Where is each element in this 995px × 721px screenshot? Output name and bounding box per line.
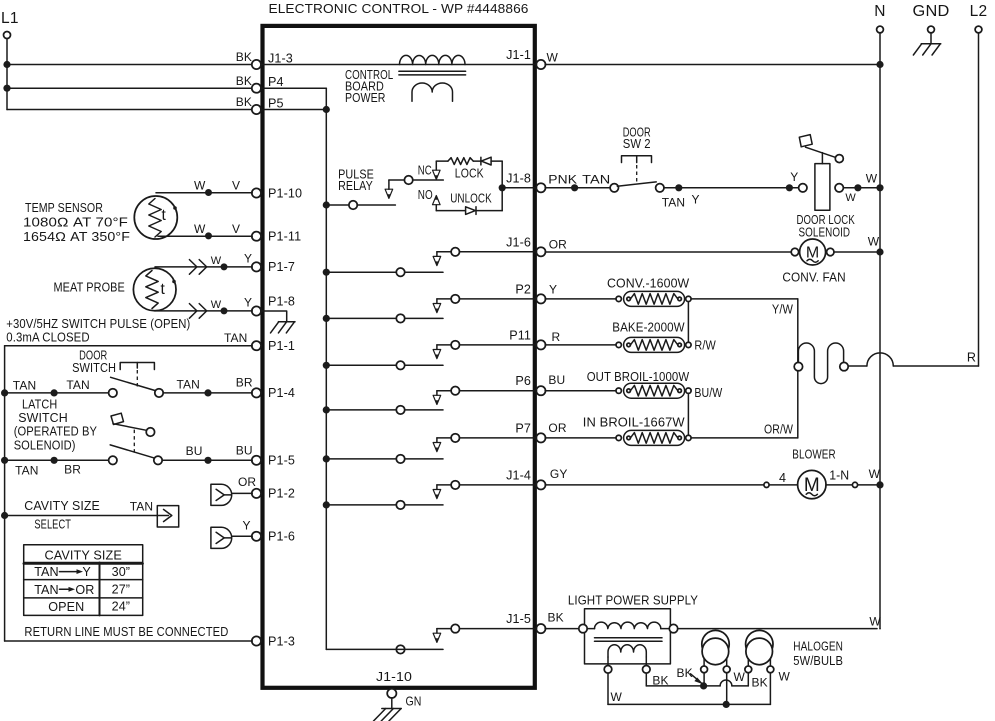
pin P1-5 terminal bbox=[252, 454, 295, 468]
motor M2 blower bbox=[764, 470, 858, 498]
label W bbox=[866, 172, 878, 186]
pin P2 terminal bbox=[515, 282, 545, 303]
label BK bbox=[548, 611, 564, 625]
label 0.3mA CLOSED bbox=[6, 330, 89, 344]
svg-text:BU: BU bbox=[236, 444, 253, 458]
table row OPEN 24 bbox=[48, 600, 130, 614]
wire bulb2 right lead bbox=[769, 673, 771, 705]
node PNK-TAN junction bbox=[571, 184, 578, 191]
svg-text:1080Ω AT 70°F: 1080Ω AT 70°F bbox=[23, 216, 128, 230]
label LATCH SWITCH (OPERATED BY SOLENOID) bbox=[14, 397, 98, 452]
svg-text:LIGHT POWER SUPPLY: LIGHT POWER SUPPLY bbox=[568, 594, 699, 608]
label Y bbox=[692, 193, 700, 207]
svg-text:P11: P11 bbox=[509, 328, 531, 342]
wire P5 to bus bbox=[261, 109, 327, 111]
svg-text:P1-10: P1-10 bbox=[268, 186, 302, 200]
svg-text:SOLENOID: SOLENOID bbox=[799, 225, 851, 239]
wire relay common P2 bbox=[326, 317, 443, 319]
svg-text:(OPERATED BY: (OPERATED BY bbox=[14, 425, 98, 439]
wire P7 to in broil element bbox=[545, 437, 616, 439]
latch switch link bbox=[133, 430, 135, 455]
terminal N bbox=[874, 3, 885, 33]
wire NC stub bbox=[389, 180, 405, 189]
svg-text:POWER: POWER bbox=[345, 91, 386, 105]
label BK arrow bbox=[677, 666, 704, 685]
relay common contact P6 bbox=[396, 406, 404, 414]
svg-text:L2: L2 bbox=[970, 3, 988, 20]
svg-text:OR: OR bbox=[548, 421, 566, 435]
svg-text:OUT BROIL-1000W: OUT BROIL-1000W bbox=[587, 370, 690, 384]
svg-text:SWITCH: SWITCH bbox=[72, 361, 116, 375]
svg-text:TAN: TAN bbox=[662, 195, 685, 209]
label R bbox=[967, 351, 976, 365]
wire J1-5 to light supply bbox=[545, 628, 579, 630]
solenoid SOL1 door lock bbox=[799, 164, 844, 211]
svg-text:W: W bbox=[734, 670, 746, 684]
wire after door sw 2 bbox=[664, 187, 799, 189]
svg-text:TAN: TAN bbox=[130, 500, 153, 514]
wire P2 to conv element bbox=[545, 298, 616, 300]
label Y bbox=[244, 296, 252, 310]
svg-text:27”: 27” bbox=[112, 583, 131, 597]
label BU bbox=[236, 444, 253, 458]
svg-text:24”: 24” bbox=[112, 600, 131, 614]
svg-text:P1-11: P1-11 bbox=[268, 230, 301, 244]
wire J1-8 PNK bbox=[545, 187, 610, 189]
svg-text:Y: Y bbox=[692, 193, 700, 207]
connector P1-6 plug bbox=[211, 527, 252, 548]
svg-text:W: W bbox=[194, 222, 206, 236]
node W-V junction bbox=[205, 232, 212, 239]
svg-text:W: W bbox=[869, 467, 881, 481]
pin J1-1 terminal bbox=[506, 48, 545, 69]
svg-text:R/W: R/W bbox=[694, 338, 715, 352]
pin P1-7 terminal bbox=[252, 260, 295, 274]
svg-text:TAN: TAN bbox=[34, 565, 59, 579]
electronic control board U1 (box) bbox=[263, 26, 535, 688]
label BR bbox=[64, 462, 81, 476]
connector arrow down bbox=[385, 189, 393, 198]
connector arrow P7 bbox=[433, 443, 441, 452]
svg-text:BK: BK bbox=[236, 74, 252, 88]
wire latch switch to P1-5 bbox=[162, 459, 252, 461]
node left bus cavity junction bbox=[1, 512, 8, 519]
wire inner bus vertical bbox=[325, 88, 327, 649]
svg-text:BU: BU bbox=[186, 444, 203, 458]
label R bbox=[552, 330, 561, 344]
node W junction bbox=[723, 701, 730, 708]
node junction bbox=[204, 457, 211, 464]
label TAN bbox=[66, 378, 89, 392]
wire J1-3 to J1-1 bbox=[261, 64, 537, 66]
relay contact output P7 bbox=[437, 434, 537, 443]
label IN BROIL-1667W bbox=[583, 416, 685, 430]
svg-text:P1-5: P1-5 bbox=[268, 454, 295, 468]
svg-text:P2: P2 bbox=[515, 282, 531, 296]
connector cavity select box bbox=[157, 506, 178, 527]
pin P6 terminal bbox=[515, 374, 545, 395]
wire temp sensor to P1-11 bbox=[158, 235, 252, 237]
svg-text:L1: L1 bbox=[1, 10, 19, 27]
pin P4 terminal bbox=[252, 75, 284, 93]
node bus junction P11 bbox=[323, 362, 330, 369]
label BK bbox=[652, 673, 668, 687]
ground GND symbol bbox=[913, 33, 940, 55]
label ELECTRONIC CONTROL - WP #4448866 bbox=[269, 1, 529, 16]
wire L1 vertical bbox=[6, 39, 8, 110]
connector chevrons bbox=[189, 260, 206, 275]
svg-text:GND: GND bbox=[913, 3, 950, 20]
transformer T1 control board power primary bbox=[400, 55, 466, 64]
node L1-P4 junction bbox=[3, 85, 10, 92]
wire pulse relay common bbox=[326, 204, 395, 206]
svg-text:NO: NO bbox=[418, 188, 433, 202]
terminal L1 bbox=[1, 10, 19, 39]
wire meat probe to P1-7 bbox=[155, 266, 252, 268]
svg-text:P1-7: P1-7 bbox=[268, 260, 295, 274]
svg-text:W: W bbox=[869, 614, 881, 628]
label W bbox=[734, 670, 746, 684]
svg-text:1-N: 1-N bbox=[829, 468, 849, 482]
svg-text:SW 2: SW 2 bbox=[623, 137, 651, 151]
wire lock branch top bbox=[436, 160, 502, 162]
motor M1 conv fan bbox=[791, 239, 834, 265]
svg-text:BAKE-2000W: BAKE-2000W bbox=[612, 320, 684, 334]
relay common contact P11 bbox=[396, 361, 404, 369]
svg-text:SWITCH: SWITCH bbox=[18, 411, 68, 425]
relay common contact P7 bbox=[396, 455, 404, 463]
label CONTROL BOARD POWER bbox=[345, 68, 393, 105]
label OUT BROIL-1000W bbox=[587, 370, 690, 384]
table column line bbox=[99, 563, 101, 616]
label 4 bbox=[779, 471, 786, 485]
label CONV. FAN bbox=[782, 270, 845, 284]
label CONV.-1600W bbox=[607, 276, 689, 290]
svg-text:P1-6: P1-6 bbox=[268, 530, 295, 544]
label HALOGEN 5W/BULB bbox=[793, 639, 843, 668]
svg-text:TAN: TAN bbox=[13, 379, 36, 393]
svg-text:GN: GN bbox=[406, 695, 422, 709]
relay K1 common contact bbox=[349, 201, 357, 209]
svg-text:Y/W: Y/W bbox=[772, 303, 793, 317]
heating element BAKE 2000W bbox=[616, 337, 691, 352]
label W bbox=[211, 299, 222, 311]
svg-text:W: W bbox=[866, 172, 878, 186]
svg-text:0.3mA CLOSED: 0.3mA CLOSED bbox=[6, 330, 89, 344]
wire cavity select bbox=[5, 515, 158, 517]
wire TAN to P1-1 bbox=[5, 345, 253, 347]
flexible conduit link bbox=[798, 343, 843, 384]
svg-text:W: W bbox=[868, 235, 880, 249]
table row TAN-OR 27 bbox=[34, 583, 130, 597]
label OR bbox=[548, 421, 566, 435]
pin P1-2 terminal bbox=[252, 487, 295, 501]
label W at J1-1 bbox=[547, 51, 559, 65]
relay contact output J1-4 bbox=[437, 481, 537, 490]
terminal GND bbox=[913, 3, 950, 33]
label TAN bbox=[662, 195, 685, 209]
connector arrow J1-4 bbox=[433, 490, 441, 499]
node junction bbox=[221, 307, 228, 314]
transformer T2 core bbox=[595, 638, 663, 642]
transformer T2 primary left terminal bbox=[579, 624, 587, 632]
label OR bbox=[238, 475, 256, 489]
node bus-P5 junction bbox=[323, 106, 330, 113]
node junction bbox=[204, 389, 211, 396]
svg-text:BK: BK bbox=[752, 675, 768, 689]
svg-text:TAN: TAN bbox=[15, 464, 38, 478]
wire R to L2 bbox=[848, 353, 978, 366]
svg-text:P4: P4 bbox=[268, 75, 284, 89]
label W bbox=[869, 614, 881, 628]
node TAN junction bbox=[51, 457, 58, 464]
label W bbox=[194, 179, 206, 193]
svg-text:MEAT PROBE: MEAT PROBE bbox=[54, 281, 125, 295]
pin P7 terminal bbox=[515, 421, 545, 442]
label TAN bbox=[224, 331, 247, 345]
svg-text:P5: P5 bbox=[268, 96, 284, 110]
node Y junction at solenoid bbox=[786, 184, 793, 191]
node bus junction J1-4 bbox=[323, 501, 330, 508]
svg-text:Y: Y bbox=[549, 282, 557, 296]
table row lines bbox=[24, 580, 143, 598]
svg-text:W: W bbox=[211, 255, 222, 267]
label W bbox=[869, 467, 881, 481]
transformer T2 secondary terminals bbox=[604, 666, 650, 674]
wire L2 vertical bbox=[978, 33, 980, 366]
svg-text:4: 4 bbox=[779, 471, 786, 485]
wire BK to P5 bbox=[7, 109, 252, 111]
label BAKE-2000W bbox=[612, 320, 684, 334]
svg-text:Y: Y bbox=[790, 170, 798, 184]
wire fan to N bbox=[834, 251, 877, 253]
switch S2 door sw 2 bbox=[610, 182, 664, 192]
label BLOWER bbox=[792, 448, 835, 462]
label LOCK bbox=[455, 167, 484, 181]
node N-J11 junction bbox=[876, 61, 883, 68]
label GY bbox=[550, 467, 568, 481]
label BK bbox=[236, 95, 252, 109]
svg-text:J1-8: J1-8 bbox=[506, 171, 531, 185]
svg-text:BK: BK bbox=[236, 95, 252, 109]
ground J1-10 GN bbox=[374, 695, 422, 721]
label W bbox=[779, 669, 791, 683]
node flexible link left bbox=[794, 362, 802, 370]
connector arrow P2 bbox=[433, 304, 441, 313]
svg-text:LOCK: LOCK bbox=[455, 167, 484, 181]
svg-text:CONV. FAN: CONV. FAN bbox=[782, 270, 845, 284]
label RETURN LINE MUST BE CONNECTED bbox=[24, 625, 228, 639]
label MEAT PROBE bbox=[54, 281, 125, 295]
connector arrow P6 bbox=[433, 395, 441, 404]
svg-text:R: R bbox=[967, 351, 976, 365]
wire heater return vertical bbox=[797, 299, 799, 438]
relay contact output J1-5 bbox=[437, 624, 537, 633]
relay contact output P11 bbox=[437, 341, 537, 350]
wire blower to N bbox=[858, 484, 877, 486]
table row TAN-Y 30 bbox=[34, 565, 130, 579]
wire to door switch bbox=[5, 392, 109, 394]
wire N bus vertical bbox=[879, 33, 881, 629]
svg-text:M: M bbox=[804, 475, 820, 496]
pin P1-6 terminal bbox=[252, 530, 295, 544]
svg-text:OR: OR bbox=[75, 583, 94, 597]
label TAN bbox=[13, 379, 36, 393]
wire relay common P6 bbox=[326, 409, 443, 411]
label 1-N bbox=[829, 468, 849, 482]
relay contact output P2 bbox=[437, 295, 537, 304]
switch S3 latch switch bbox=[109, 445, 163, 465]
svg-text:TAN: TAN bbox=[224, 331, 247, 345]
svg-text:P1-2: P1-2 bbox=[268, 487, 295, 501]
wire relay common P7 bbox=[326, 458, 443, 460]
door sw 2 actuator bracket bbox=[622, 156, 652, 163]
svg-text:UNLOCK: UNLOCK bbox=[450, 191, 492, 205]
transformer T2 primary right terminal bbox=[669, 624, 677, 632]
svg-text:TAN: TAN bbox=[582, 172, 610, 186]
heating element OUT BROIL 1000W bbox=[616, 383, 691, 398]
wire J1-1 to N bbox=[545, 64, 877, 66]
door sw 2 actuator link bbox=[636, 165, 638, 183]
svg-text:SELECT: SELECT bbox=[34, 517, 71, 531]
label CAVITY SIZE header bbox=[45, 548, 122, 562]
svg-text:J1-5: J1-5 bbox=[506, 612, 531, 626]
label Y bbox=[549, 282, 557, 296]
relay K1 NC contact bbox=[404, 176, 412, 184]
label V bbox=[232, 179, 240, 193]
label OR bbox=[549, 238, 567, 252]
terminal L2 bbox=[970, 3, 988, 33]
wire to J1-8 bbox=[502, 187, 536, 189]
wire meat probe to P1-8 bbox=[155, 310, 252, 312]
relay common contact J1-5 bbox=[396, 645, 404, 653]
svg-text:V: V bbox=[232, 222, 240, 236]
svg-text:J1-3: J1-3 bbox=[268, 51, 293, 65]
svg-text:+30V/5HZ SWITCH PULSE (OPEN): +30V/5HZ SWITCH PULSE (OPEN) bbox=[6, 317, 190, 331]
label TAN bbox=[582, 172, 610, 186]
wire bulb1 left lead bbox=[703, 673, 705, 683]
wire solenoid to N bbox=[843, 187, 877, 189]
relay contact output J1-6 bbox=[437, 248, 537, 257]
wire relay common J1-4 bbox=[326, 504, 443, 506]
label PULSE RELAY bbox=[338, 167, 374, 193]
svg-text:OR: OR bbox=[549, 238, 567, 252]
label BR bbox=[236, 375, 253, 389]
svg-text:W: W bbox=[845, 192, 856, 204]
pin P1-8 terminal bbox=[252, 294, 295, 315]
wire bulb1 right lead bbox=[726, 673, 728, 705]
wire left bus vertical bbox=[4, 346, 6, 641]
svg-text:t: t bbox=[161, 281, 166, 298]
svg-text:ELECTRONIC CONTROL - WP #44488: ELECTRONIC CONTROL - WP #4448866 bbox=[269, 1, 529, 16]
wire BK hop to bulb2 bbox=[707, 680, 749, 686]
node left bus door junction bbox=[1, 389, 8, 396]
label DOOR SW 2 bbox=[623, 126, 651, 152]
wire P4 to bus bbox=[261, 87, 327, 89]
node bus pulse-relay junction bbox=[323, 201, 330, 208]
svg-text:P1-3: P1-3 bbox=[268, 634, 295, 648]
svg-text:Y: Y bbox=[244, 296, 252, 310]
wire relay common P11 bbox=[326, 364, 443, 366]
svg-text:Y: Y bbox=[244, 252, 252, 266]
svg-text:W: W bbox=[779, 669, 791, 683]
label BU/W bbox=[694, 386, 722, 400]
solenoid lever flag bbox=[799, 135, 812, 147]
node bus junction J1-6 bbox=[323, 269, 330, 276]
label TAN bbox=[130, 500, 153, 514]
label UNLOCK bbox=[450, 191, 492, 205]
wire J1-4 to blower bbox=[545, 484, 764, 486]
pin P1-10 terminal bbox=[252, 186, 302, 200]
wire in broil to OR/W corner bbox=[691, 437, 798, 439]
label W bbox=[611, 690, 623, 704]
svg-text:SOLENOID): SOLENOID) bbox=[14, 438, 76, 452]
connector arrow P11 bbox=[433, 350, 441, 359]
label BU bbox=[186, 444, 203, 458]
label TEMP SENSOR values bbox=[23, 201, 130, 244]
relay common contact P2 bbox=[396, 314, 404, 322]
pin J1-5 terminal bbox=[506, 612, 545, 633]
svg-text:BU: BU bbox=[548, 373, 565, 387]
door switch bracket bbox=[120, 363, 154, 370]
svg-text:GY: GY bbox=[550, 467, 568, 481]
svg-text:W: W bbox=[611, 690, 623, 704]
svg-text:5W/BULB: 5W/BULB bbox=[793, 654, 843, 668]
node TAN junction bbox=[51, 389, 58, 396]
wire BK to J1-3 bbox=[7, 64, 252, 66]
svg-text:TEMP SENSOR: TEMP SENSOR bbox=[25, 201, 103, 215]
table CAVITY SIZE frame bbox=[24, 545, 143, 616]
svg-text:R: R bbox=[552, 330, 561, 344]
svg-text:P1-4: P1-4 bbox=[268, 386, 295, 400]
wire lock loop right vertical bbox=[501, 161, 503, 211]
wire N rail to light supply bbox=[678, 628, 880, 630]
label NC bbox=[418, 164, 432, 178]
connector chevrons bbox=[189, 304, 206, 319]
svg-text:IN BROIL-1667W: IN BROIL-1667W bbox=[583, 416, 685, 430]
pin P11 terminal bbox=[509, 328, 545, 349]
wire conv-bake right link bbox=[687, 302, 689, 343]
connector arrow down lock bbox=[433, 161, 441, 179]
svg-text:P1-8: P1-8 bbox=[268, 294, 295, 308]
label BK bbox=[752, 675, 768, 689]
wire J1-6 to fan bbox=[545, 251, 791, 253]
svg-text:OPEN: OPEN bbox=[48, 600, 84, 614]
svg-text:V: V bbox=[232, 179, 240, 193]
label BK bbox=[236, 74, 252, 88]
svg-text:CAVITY SIZE: CAVITY SIZE bbox=[24, 499, 100, 513]
transformer T2 secondary bbox=[608, 645, 646, 666]
connector P1-2 plug bbox=[211, 484, 252, 505]
label TAN bbox=[177, 377, 200, 391]
svg-text:TAN: TAN bbox=[66, 378, 89, 392]
svg-text:J1-1: J1-1 bbox=[506, 48, 531, 62]
heating element IN BROIL 1667W bbox=[616, 430, 691, 445]
wire temp sensor to P1-10 bbox=[156, 192, 252, 194]
label W bbox=[211, 255, 222, 267]
node N-fan junction bbox=[876, 248, 883, 255]
svg-text:BK: BK bbox=[677, 666, 693, 680]
pin J1-10 terminal bbox=[376, 670, 412, 698]
svg-text:P6: P6 bbox=[515, 374, 531, 388]
svg-text:HALOGEN: HALOGEN bbox=[793, 639, 843, 653]
transformer T1 core bbox=[399, 71, 466, 75]
label DOOR LOCK SOLENOID bbox=[797, 213, 856, 239]
svg-text:P7: P7 bbox=[515, 421, 531, 435]
wire conv element to Y/W corner bbox=[691, 298, 798, 300]
label DOOR SWITCH bbox=[72, 349, 116, 375]
svg-text:RELAY: RELAY bbox=[338, 179, 373, 193]
